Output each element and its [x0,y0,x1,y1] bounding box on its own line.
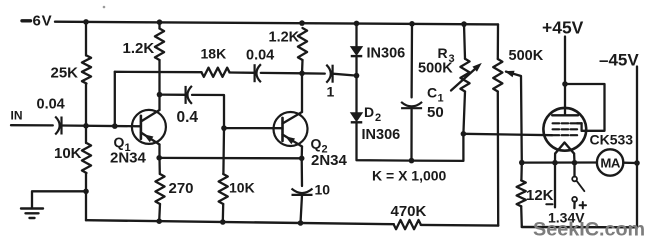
node Q2 emitter junction [299,156,305,162]
resistor 1.2K second [298,28,307,60]
wire input node to Q1 base [62,124,141,127]
ground [21,207,43,209]
svg-text:500K: 500K [418,61,453,77]
svg-text:K = X 1,000: K = X 1,000 [372,168,447,184]
wire collector node to 1uF [302,72,325,75]
tube grid dashes row1 [553,122,560,124]
wire top supply rail -6V [55,22,498,25]
wire 10K to ground node [85,173,87,191]
capacitor 0.04 feedback [254,64,256,82]
wire 25K to input node [85,84,87,126]
svg-text:10: 10 [315,182,331,198]
node wiper cathode junction [519,160,525,166]
svg-text:–45V: –45V [599,50,639,69]
wire R3 to grid node [463,92,465,134]
svg-text:12K: 12K [526,187,554,204]
wire bottom ground rail right [421,224,498,227]
svg-text:6V: 6V [33,13,53,30]
potentiometer 500K element [493,59,502,92]
capacitor C1 [401,107,422,109]
svg-text:D: D [364,104,374,120]
resistor 12K [517,180,526,206]
node feedback junction at Q1 base [112,123,118,129]
wire 270 to bottom rail [158,204,161,221]
svg-text:0.04: 0.04 [37,97,65,113]
label battery minus [546,203,552,205]
tube grid dashes row2 [553,128,560,130]
resistor 25K [82,56,91,84]
svg-text:IN: IN [11,109,23,123]
tube plate bar [552,114,578,116]
wire 0.04 to Q2 collector node [261,72,302,75]
wire rail to C1 [410,24,413,98]
svg-text:SeekIC.com: SeekIC.com [533,218,645,240]
wire to Q2 base [224,127,283,129]
transistor Q2 emitter arrow [285,136,295,144]
potentiometer 500K wiper arm [505,71,515,78]
node junction top rail at diode string [354,21,360,27]
wire bottom ground rail left [86,220,394,224]
wire battery negative lead [554,163,556,208]
node ground junction [83,189,89,195]
wire C1 to bottom line [410,108,412,160]
label battery plus [580,204,586,206]
svg-text:10K: 10K [229,180,255,196]
transistor Q1 emitter arrow [144,134,154,142]
wire +45V lead [564,37,566,116]
meter MA circle [597,149,623,175]
label -6V [22,19,31,22]
wire -45V lead [636,67,638,228]
wire Q2 base node down [222,128,225,174]
svg-text:1: 1 [438,93,444,105]
potentiometer R3 element [460,59,469,92]
node junction top rail at 25K [83,19,89,25]
svg-text:470K: 470K [391,203,427,220]
svg-text:2N34: 2N34 [110,149,147,166]
tube CK533 envelope [543,108,586,151]
wire cathode to 12K [520,163,523,181]
node junction top rail at C1 [409,21,415,27]
svg-text:Q: Q [114,134,125,150]
wire +45V branch to tube side [565,84,605,131]
wire 10uF to bottom rail [301,195,303,223]
capacitor 1 [332,65,334,83]
svg-text:500K: 500K [509,48,544,64]
node diode junction [354,73,360,79]
svg-text:18K: 18K [201,45,227,61]
wire rail end down to 500K [497,24,500,59]
resistor 1.2K first [155,29,164,61]
node Q1 emitter junction [156,155,162,161]
node input bias junction [83,123,89,129]
transistor Q2 circle [274,112,308,146]
transistor Q1 base bar [140,116,143,139]
tube filament [555,143,574,154]
wire 1uF to diode node [333,74,357,76]
potentiometer R3 arrow [451,66,478,91]
capacitor 0.04 input [60,117,62,135]
wire battery positive lead [573,202,575,208]
tube grid dashes row3 [553,134,560,136]
tube screen bracket [580,123,582,131]
resistor 10K input [82,143,91,173]
svg-text:1: 1 [327,84,335,100]
node Q1 collector junction [157,92,163,98]
svg-text:270: 270 [169,180,194,197]
transistor Q1 emitter lead [141,133,160,145]
resistor 470K [394,220,421,229]
node junction top rail at 1.2K [157,19,163,25]
svg-text:2N34: 2N34 [311,152,348,169]
node junction top rail at Q2 1.2K [299,20,305,26]
capacitor 10 [292,194,313,196]
svg-text:Q: Q [311,136,322,152]
wire Q1 emitter down [158,145,160,158]
switch lever [577,181,585,191]
diode D1 1N306 [351,47,363,56]
transistor Q1 circle [132,110,166,144]
svg-text:1.2K: 1.2K [269,30,300,46]
wire feedback vertical [114,72,116,126]
svg-text:C: C [427,85,437,101]
svg-text:MA: MA [600,155,621,170]
transistor Q2 collector lead [283,112,303,124]
resistor 270 [155,174,164,204]
diode D2 1N306 [351,113,363,122]
wire switch lead [573,163,575,177]
node bottom rail at 10uF [298,220,304,226]
wire input node to 10K [85,126,87,143]
node filament left junction [552,160,558,166]
svg-text:10K: 10K [54,145,82,162]
wire Q1 collector to 0.4 [160,93,186,96]
wire filament right leg [573,154,576,163]
transistor Q2 emitter lead [283,135,303,147]
wire rail to R3 [464,24,465,59]
wire rail to D1 [355,23,357,46]
transistor Q2 base bar [281,118,284,141]
node junction top rail at R3 [461,21,467,27]
wire Q2 emitter down [301,147,304,159]
wire bottom line to grid corner [412,134,464,161]
wire feedback horizontal [115,71,202,74]
svg-text:IN306: IN306 [362,127,401,143]
node bottom rail at 10K [220,219,226,225]
speck [103,6,106,9]
node Q2 collector junction [299,71,305,77]
wire input lead [11,124,53,127]
svg-text:R: R [438,45,448,61]
wire emitter to 270 [158,158,161,174]
svg-text:25K: 25K [51,65,79,82]
wire rail to 1.2K [158,22,160,28]
node bottom rail at 270 [156,218,162,224]
wire to ground symbol [32,191,86,208]
node grid junction [461,131,467,137]
wire 18K to 0.04 [230,71,255,74]
node Q2 base junction [221,125,227,131]
capacitor 0.4 [185,86,187,104]
wire 0.4 to Q2 base corner [192,95,224,128]
svg-text:2: 2 [375,112,381,124]
svg-text:CK533: CK533 [590,132,634,148]
wire emitter link Q1 to Q2 [159,157,302,160]
wire 12K to battery rail [520,206,523,227]
wire 500K to bottom rail [497,92,500,226]
svg-text:50: 50 [427,104,444,121]
svg-text:0.4: 0.4 [177,109,199,126]
svg-text:0.04: 0.04 [246,48,274,64]
wire ground node to bottom rail [85,191,87,220]
wire grid node to tube [463,134,552,135]
wire 10K second to bottom rail [222,204,225,222]
wire filament left leg [554,154,556,163]
node meter -45V junction [634,160,640,166]
svg-text:1.2K: 1.2K [123,40,155,57]
wire D1 to junction [355,57,357,76]
transistor Q1 collector lead [141,110,160,122]
svg-text:IN306: IN306 [367,46,406,62]
svg-text:+45V: +45V [542,18,584,38]
resistor 18K [202,68,230,77]
wire rail to 25K [85,22,87,56]
switch contact bottom [572,197,577,202]
node +45V branch junction [562,81,568,87]
wire battery bottom rail [522,226,637,229]
wire meter to -45V [623,162,637,165]
wire junction to D2 [355,76,357,113]
wire emitter to 10uF [301,158,304,186]
wire collector node to Q2 [301,73,303,112]
wire cathode line [522,161,597,163]
switch contact top [572,177,577,182]
resistor 10K second [219,174,228,204]
wire 1.2K to Q1 collector [158,60,160,110]
node filament right junction [572,160,578,166]
wire 1.2K second to collector node [301,60,304,73]
node C1 bottom junction [409,158,415,164]
wire D2 to bottom corner [357,123,412,161]
